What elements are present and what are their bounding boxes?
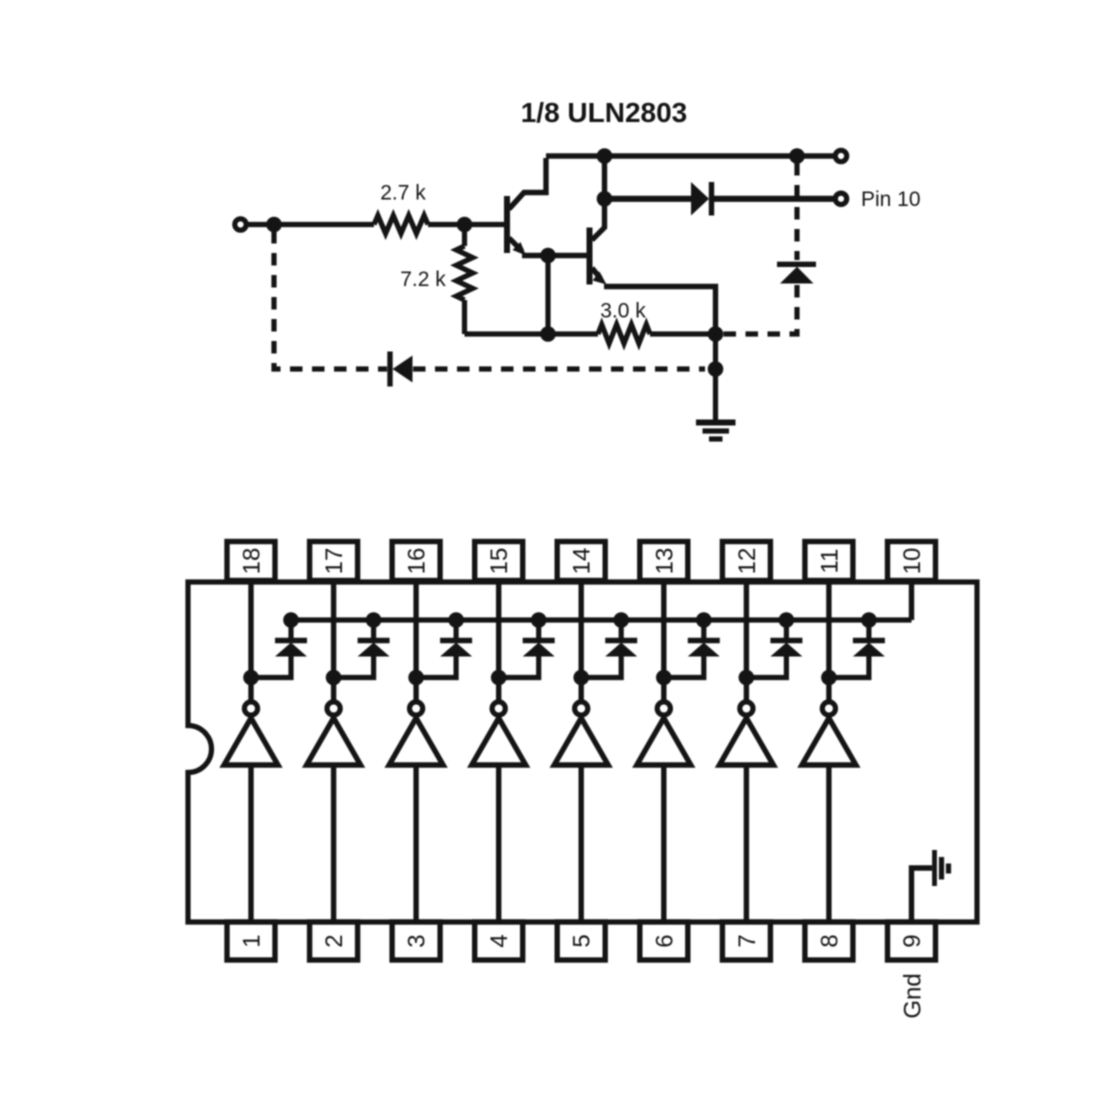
inverter A7 input wire — [744, 678, 749, 701]
inverter A1 — [224, 702, 278, 765]
pin 4 box — [475, 922, 523, 960]
output terminal Pin 10 — [835, 193, 846, 204]
pin 10 lead — [909, 580, 914, 620]
wire Q2 emitter to bottom rail — [604, 287, 716, 335]
node E rail junction at Q2 collector — [597, 148, 613, 164]
COM bus wire to pin 10 — [291, 617, 912, 622]
svg-text:8: 8 — [816, 934, 843, 947]
dashed wire D2 to node I — [413, 366, 705, 371]
wire junction to clamp diode D14 — [499, 655, 539, 678]
pin 1 box — [227, 922, 275, 960]
pin 15 lead into IC — [496, 580, 501, 678]
diode D2 — [390, 352, 413, 387]
wire node B to R2 — [462, 225, 467, 247]
dashed wire input down and across — [274, 231, 387, 369]
wire A1 output to pin 1 — [248, 765, 253, 922]
input terminal — [235, 219, 246, 230]
node B base junction — [457, 217, 473, 233]
svg-text:12: 12 — [734, 548, 761, 575]
node cell8 input junction — [821, 670, 837, 686]
svg-text:11: 11 — [816, 549, 843, 574]
node F rail junction at flyback diode — [789, 148, 805, 164]
pin 5 box — [557, 922, 605, 960]
node bus junction 4 — [531, 612, 547, 628]
wire A6 output to pin 6 — [661, 765, 666, 922]
node cell1 input junction — [243, 670, 259, 686]
clamp diode D15 — [605, 620, 637, 657]
svg-text:4: 4 — [486, 934, 513, 947]
node cell3 input junction — [408, 670, 424, 686]
node D bottom rail junction — [540, 326, 556, 342]
transistor Q1 — [507, 158, 546, 256]
svg-text:3.0 k: 3.0 k — [600, 300, 646, 323]
wire junction to clamp diode D13 — [416, 655, 456, 678]
dashed wire D3 down to bottom rail corner — [723, 285, 797, 334]
wire junction to clamp diode D17 — [746, 655, 786, 678]
resistor R3 3.0k — [598, 325, 650, 344]
pin 18 box — [227, 542, 275, 581]
inverter A6 input wire — [661, 678, 666, 701]
inverter A2 input wire — [331, 678, 336, 701]
wire R3 to node H — [650, 331, 716, 336]
node bus junction 8 — [861, 612, 877, 628]
pin 11 box — [805, 542, 853, 581]
node bus junction 1 — [283, 612, 299, 628]
wire top rail — [546, 153, 836, 158]
output terminal (collector) — [835, 150, 846, 161]
pin 16 box — [392, 542, 440, 581]
inverter A5 input wire — [579, 678, 584, 701]
svg-text:17: 17 — [321, 548, 348, 575]
transistor Q2 — [590, 156, 607, 285]
wire junction to clamp diode D11 — [251, 655, 291, 678]
clamp diode D14 — [523, 620, 555, 657]
svg-text:7: 7 — [734, 934, 761, 947]
pin 15 box — [475, 542, 523, 581]
pin 14 box — [557, 542, 605, 581]
pin 12 lead into IC — [744, 580, 749, 678]
svg-text:5: 5 — [569, 934, 596, 947]
node C emitter junction — [540, 248, 556, 264]
clamp diode D18 — [853, 620, 885, 657]
svg-text:9: 9 — [899, 934, 926, 947]
pin 6 box — [640, 922, 688, 960]
pin 16 lead into IC — [413, 580, 418, 678]
pin 9 ground wire — [912, 868, 933, 922]
wire A4 output to pin 4 — [496, 765, 501, 922]
IC body U1 ULN2803 — [188, 582, 977, 922]
svg-text:2.7 k: 2.7 k — [380, 182, 426, 205]
inverter A8 input wire — [826, 678, 831, 701]
svg-text:10: 10 — [899, 548, 926, 575]
wire R1 to Q1 base — [428, 222, 505, 227]
inverter A3 — [389, 702, 443, 765]
svg-text:15: 15 — [486, 548, 513, 575]
pin 18 lead into IC — [248, 580, 253, 678]
diode D1 — [691, 182, 712, 216]
pin 8 box — [805, 922, 853, 960]
wire Q1 emitter to Q2 base — [522, 253, 588, 258]
node cell2 input junction — [326, 670, 342, 686]
pin 9 box — [888, 922, 936, 960]
clamp diode D12 — [358, 620, 390, 657]
pin 11 lead into IC — [826, 580, 831, 678]
pin 10 box — [888, 542, 936, 581]
clamp diode D17 — [770, 620, 802, 657]
ground — [696, 423, 736, 440]
svg-text:7.2 k: 7.2 k — [400, 268, 446, 291]
pin 7 box — [722, 922, 770, 960]
wire junction to clamp diode D12 — [334, 655, 374, 678]
pin 14 lead into IC — [579, 580, 584, 678]
node cell7 input junction — [739, 670, 755, 686]
pin 17 lead into IC — [331, 580, 336, 678]
node cell6 input junction — [656, 670, 672, 686]
resistor R1 2.7k — [374, 216, 428, 234]
IC ground symbol — [935, 850, 949, 886]
svg-text:1: 1 — [239, 934, 266, 947]
inverter A8 — [802, 702, 856, 765]
wire A2 output to pin 2 — [331, 765, 336, 922]
pin 13 box — [640, 542, 688, 581]
inverter A6 — [637, 702, 691, 765]
svg-text:18: 18 — [239, 548, 266, 575]
wire A8 output to pin 8 — [826, 765, 831, 922]
wire junction to clamp diode D15 — [581, 655, 621, 678]
svg-text:3: 3 — [404, 934, 431, 947]
node cell4 input junction — [491, 670, 507, 686]
pin 12 box — [722, 542, 770, 581]
svg-text:14: 14 — [569, 548, 596, 575]
inverter A1 input wire — [248, 678, 253, 701]
inverter A2 — [307, 702, 361, 765]
wire junction to clamp diode D16 — [664, 655, 704, 678]
node bus junction 3 — [448, 612, 464, 628]
node bus junction 7 — [779, 612, 795, 628]
svg-text:13: 13 — [651, 548, 678, 575]
wire A7 output to pin 7 — [744, 765, 749, 922]
wire Q2 collector to D1 — [605, 196, 692, 202]
node H — [708, 326, 724, 342]
inverter A3 input wire — [413, 678, 418, 701]
node bus junction 5 — [613, 612, 629, 628]
dashed wire flyback branch — [794, 163, 799, 260]
svg-text:1/8 ULN2803: 1/8 ULN2803 — [521, 97, 688, 128]
pin 13 lead into IC — [661, 580, 666, 678]
clamp diode D13 — [440, 620, 472, 657]
diode D3 flyback — [777, 264, 816, 283]
clamp diode D11 — [275, 620, 307, 657]
node bus junction 6 — [696, 612, 712, 628]
node G collector junction — [597, 191, 613, 207]
wire D1 to Pin 10 terminal — [714, 196, 836, 202]
inverter A4 — [472, 702, 526, 765]
inverter A7 — [719, 702, 773, 765]
pin 17 box — [310, 542, 358, 581]
wire node H to ground — [713, 334, 718, 421]
wire R2 to bottom rail — [462, 300, 467, 334]
clamp diode D16 — [688, 620, 720, 657]
svg-text:2: 2 — [321, 934, 348, 947]
inverter A4 input wire — [496, 678, 501, 701]
wire node C down to bottom rail — [545, 256, 550, 335]
svg-text:16: 16 — [404, 548, 431, 575]
wire bottom rail left — [465, 331, 599, 336]
inverter A5 — [554, 702, 608, 765]
wire input to R1 — [247, 222, 375, 227]
pin 2 box — [310, 922, 358, 960]
resistor R2 7.2k — [456, 246, 472, 300]
pin 3 box — [392, 922, 440, 960]
node cell5 input junction — [573, 670, 589, 686]
node A input junction — [266, 217, 282, 233]
wire junction to clamp diode D18 — [829, 655, 869, 678]
wire A3 output to pin 3 — [413, 765, 418, 922]
svg-text:6: 6 — [651, 934, 678, 947]
wire A5 output to pin 5 — [579, 765, 584, 922]
node I — [708, 361, 724, 377]
svg-text:Gnd: Gnd — [900, 973, 927, 1018]
node bus junction 2 — [366, 612, 382, 628]
svg-text:Pin 10: Pin 10 — [861, 188, 921, 211]
